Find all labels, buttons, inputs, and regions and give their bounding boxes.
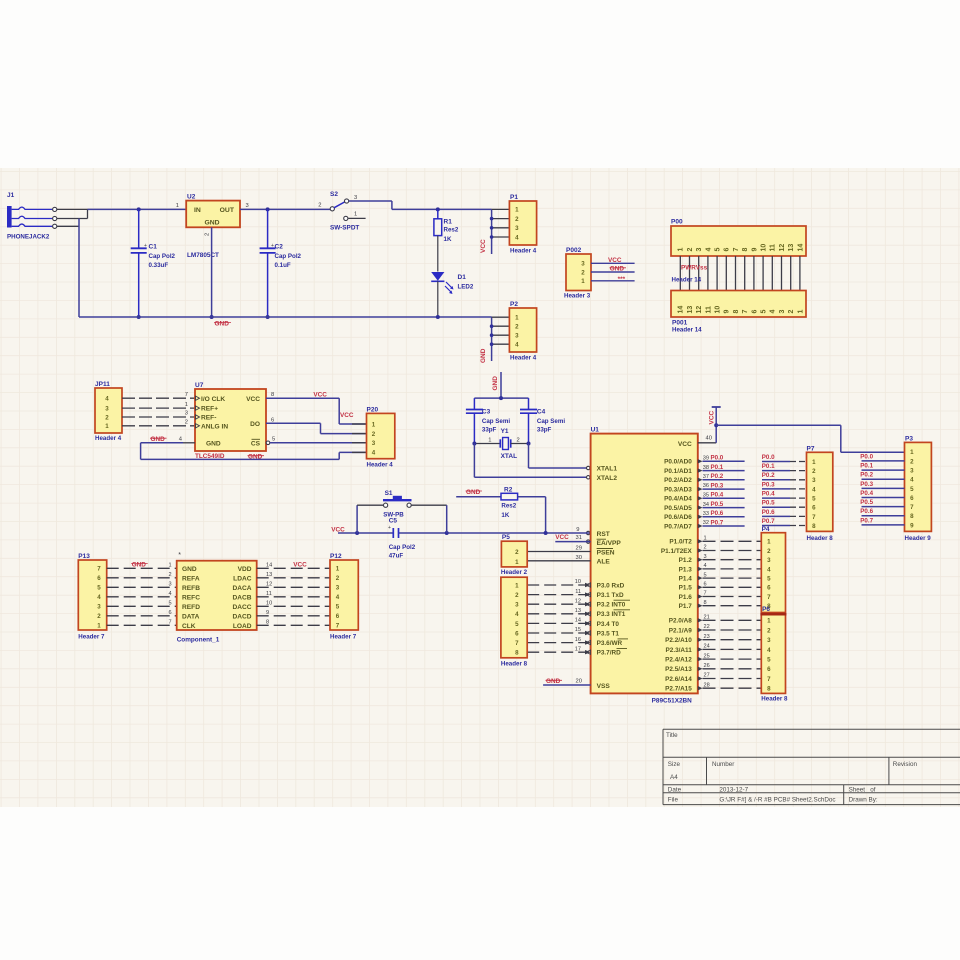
svg-text:P1.4: P1.4	[679, 576, 693, 583]
svg-text:27: 27	[704, 673, 710, 679]
svg-text:P0.2: P0.2	[860, 472, 873, 479]
svg-text:P0.2: P0.2	[711, 473, 724, 480]
svg-text:SW-PB: SW-PB	[383, 512, 404, 519]
junction C1 bottom	[137, 315, 141, 319]
svg-text:4: 4	[105, 396, 109, 403]
svg-text:C5: C5	[389, 518, 398, 525]
svg-text:P0.2: P0.2	[762, 472, 775, 479]
svg-text:6: 6	[97, 575, 101, 582]
svg-text:G:\JR F#] & /-R #B PCB# Sheet2: G:\JR F#] & /-R #B PCB# Sheet2.SchDoc	[719, 797, 835, 804]
svg-text:2: 2	[788, 310, 795, 314]
svg-text:P89C51X2BN: P89C51X2BN	[652, 698, 693, 705]
wire VCC to header P3	[716, 424, 841, 426]
svg-text:3: 3	[767, 557, 771, 564]
svg-text:LOAD: LOAD	[233, 623, 252, 630]
svg-text:10: 10	[575, 579, 581, 585]
svg-text:Cap Semi: Cap Semi	[537, 418, 565, 425]
svg-text:Header 8: Header 8	[761, 696, 788, 703]
svg-text:7: 7	[910, 504, 914, 511]
wires JP11 to U7	[122, 397, 195, 399]
svg-text:12: 12	[696, 306, 703, 314]
wire U7 CS to P20 pin3	[266, 441, 270, 445]
svg-text:P6: P6	[762, 606, 770, 613]
svg-text:5: 5	[761, 310, 768, 314]
svg-text:P0.7: P0.7	[711, 519, 724, 526]
svg-text:6: 6	[751, 310, 758, 314]
header P8	[501, 577, 528, 667]
svg-text:Date: Date	[668, 786, 682, 793]
svg-text:Header 4: Header 4	[95, 435, 122, 442]
svg-text:6: 6	[515, 630, 519, 637]
svg-text:7: 7	[97, 566, 101, 573]
adc U7 TLC549ID	[179, 382, 275, 460]
svg-text:REFD: REFD	[182, 604, 200, 611]
svg-text:PHONEJACK2: PHONEJACK2	[7, 234, 50, 241]
svg-text:33pF: 33pF	[537, 426, 552, 433]
header P002	[564, 247, 635, 300]
ground rail	[79, 316, 492, 318]
svg-text:GND: GND	[182, 566, 197, 573]
svg-text:P2.1/A9: P2.1/A9	[669, 627, 693, 634]
svg-text:2: 2	[910, 458, 914, 465]
svg-text:OUT: OUT	[220, 207, 235, 214]
svg-text:2: 2	[515, 549, 519, 556]
mcu U1 P89C51X2BN	[591, 427, 698, 705]
svg-text:5: 5	[767, 576, 771, 583]
svg-text:1: 1	[767, 539, 771, 546]
svg-text:5: 5	[169, 601, 172, 607]
svg-text:REF-: REF-	[201, 415, 216, 422]
svg-text:7: 7	[185, 392, 188, 398]
svg-text:VCC: VCC	[246, 396, 260, 403]
svg-text:3: 3	[169, 582, 172, 588]
svg-text:GND: GND	[546, 678, 561, 685]
svg-text:P0.1/AD1: P0.1/AD1	[664, 468, 692, 475]
svg-text:P1.5: P1.5	[679, 585, 693, 592]
svg-text:P0.3: P0.3	[860, 481, 873, 488]
svg-text:2: 2	[767, 548, 771, 555]
svg-text:REF+: REF+	[201, 406, 218, 413]
wire switch pin3	[349, 200, 392, 202]
svg-text:VCC: VCC	[555, 534, 569, 541]
svg-text:XTAL2: XTAL2	[597, 475, 618, 482]
svg-text:Revision: Revision	[893, 761, 918, 768]
wires P7 stubs with net labels	[762, 461, 790, 463]
svg-text:P0.0: P0.0	[711, 455, 724, 462]
svg-text:13: 13	[788, 244, 795, 252]
svg-text:11: 11	[770, 244, 777, 252]
svg-text:32: 32	[703, 520, 709, 526]
svg-text:Sheet of: Sheet of	[849, 786, 876, 793]
junction U2 gnd at rail	[210, 315, 214, 319]
svg-text:5: 5	[272, 437, 275, 443]
header P001	[671, 291, 806, 334]
svg-text:8: 8	[910, 513, 914, 520]
svg-text:REFB: REFB	[182, 585, 200, 592]
wire VCC pin 40	[698, 442, 716, 444]
svg-text:6: 6	[724, 248, 731, 252]
wires Component_1 to P12	[257, 567, 330, 569]
wire jack sleeve	[57, 225, 79, 227]
svg-text:VCC: VCC	[709, 410, 716, 424]
svg-text:Header 14: Header 14	[672, 327, 702, 334]
svg-text:3: 3	[696, 248, 703, 252]
svg-text:Header 3: Header 3	[564, 293, 591, 300]
svg-text:1: 1	[910, 449, 914, 456]
svg-text:S1: S1	[385, 490, 393, 497]
svg-text:GND: GND	[204, 220, 219, 227]
wire VSS gnd stub	[543, 684, 591, 686]
svg-text:11: 11	[575, 589, 581, 595]
svg-text:Cap Pol2: Cap Pol2	[389, 544, 416, 551]
svg-text:P12: P12	[330, 553, 342, 560]
header P2	[490, 301, 537, 362]
junction gnd xtal	[499, 396, 503, 400]
svg-text:31: 31	[576, 535, 582, 541]
svg-text:3: 3	[97, 604, 101, 611]
wires P8 to U1 P3.x	[527, 584, 585, 586]
svg-text:7: 7	[515, 640, 519, 647]
header P1	[490, 194, 537, 255]
svg-text:P0.3/AD3: P0.3/AD3	[664, 486, 692, 493]
svg-text:5: 5	[704, 572, 707, 578]
svg-text:1: 1	[105, 423, 109, 430]
svg-text:3: 3	[354, 195, 357, 201]
svg-text:P0.4: P0.4	[711, 492, 724, 499]
svg-text:12: 12	[779, 244, 786, 252]
wire U2 gnd pin	[211, 227, 213, 317]
svg-text:6: 6	[336, 613, 340, 620]
svg-text:P2.7/A15: P2.7/A15	[665, 686, 692, 693]
svg-text:5: 5	[336, 604, 340, 611]
svg-text:GND: GND	[466, 489, 481, 496]
svg-text:P13: P13	[78, 553, 90, 560]
svg-text:8: 8	[733, 310, 740, 314]
svg-text:7: 7	[767, 676, 771, 683]
svg-text:1: 1	[97, 623, 101, 630]
svg-text:1: 1	[336, 566, 340, 573]
svg-text:P0.3: P0.3	[711, 482, 724, 489]
svg-text:12: 12	[575, 598, 581, 604]
svg-text:14: 14	[678, 306, 685, 314]
svg-text:Header 4: Header 4	[367, 462, 394, 469]
svg-text:ALE: ALE	[597, 559, 611, 566]
svg-text:2: 2	[515, 216, 519, 223]
svg-text:2: 2	[336, 575, 340, 582]
svg-text:40: 40	[706, 436, 712, 442]
svg-text:Cap Pol2: Cap Pol2	[149, 253, 176, 260]
svg-text:P4: P4	[762, 526, 770, 533]
svg-text:VCC: VCC	[678, 441, 692, 448]
svg-text:Component_1: Component_1	[177, 637, 220, 644]
svg-text:Header 7: Header 7	[330, 634, 357, 641]
svg-text:8: 8	[271, 392, 274, 398]
svg-text:1: 1	[812, 459, 816, 466]
svg-text:26: 26	[704, 663, 710, 669]
svg-text:1: 1	[354, 212, 357, 218]
wires P13 to Component_1	[107, 567, 177, 569]
svg-text:P2.2/A10: P2.2/A10	[665, 637, 692, 644]
svg-text:28: 28	[704, 682, 710, 688]
dac Component_1	[169, 552, 273, 644]
junction C2 bottom	[266, 315, 270, 319]
svg-text:2: 2	[767, 627, 771, 634]
svg-text:DACD: DACD	[232, 613, 251, 620]
svg-text:VDD: VDD	[238, 566, 252, 573]
svg-text:3: 3	[372, 440, 376, 447]
svg-text:Res2: Res2	[501, 502, 516, 509]
svg-text:1: 1	[678, 248, 685, 252]
header P6	[760, 606, 788, 702]
wire U7 gnd loop	[183, 442, 195, 444]
svg-text:P5: P5	[502, 534, 510, 541]
svg-text:16: 16	[575, 637, 581, 643]
regulator U2 LM7805CT	[176, 194, 249, 260]
svg-text:Header 4: Header 4	[510, 355, 537, 362]
wire jack tip to rail	[57, 208, 88, 210]
svg-text:47uF: 47uF	[389, 553, 404, 560]
svg-text:P0.1: P0.1	[711, 464, 724, 471]
svg-text:P0.1: P0.1	[860, 463, 873, 470]
svg-text:1: 1	[185, 402, 188, 408]
svg-text:2: 2	[704, 545, 707, 551]
svg-text:Number: Number	[712, 761, 734, 768]
wire C3 branch to XTAL2	[473, 444, 475, 478]
header P00	[671, 219, 806, 257]
svg-text:4: 4	[812, 486, 816, 493]
svg-text:15: 15	[575, 627, 581, 633]
svg-text:1: 1	[515, 582, 519, 589]
svg-text:C2: C2	[275, 244, 284, 251]
capacitor C4	[520, 398, 565, 443]
svg-text:Header 8: Header 8	[807, 535, 834, 542]
switch S1 SW-PB	[357, 490, 447, 533]
capacitor C1	[131, 209, 176, 317]
title block	[663, 729, 960, 804]
svg-text:Header 2: Header 2	[501, 569, 528, 576]
svg-text:P001: P001	[672, 320, 688, 327]
svg-text:30: 30	[576, 555, 582, 561]
svg-text:VSS: VSS	[597, 683, 611, 690]
svg-text:P3.6/WR: P3.6/WR	[597, 640, 623, 647]
svg-text:P0.7: P0.7	[860, 517, 873, 524]
svg-text:1: 1	[515, 315, 519, 322]
svg-text:2: 2	[97, 613, 101, 620]
svg-text:P0.1: P0.1	[762, 463, 775, 470]
svg-text:1: 1	[176, 203, 179, 209]
junction R2 rail	[544, 531, 548, 535]
capacitor C3	[466, 398, 510, 443]
svg-text:P0.6: P0.6	[711, 510, 724, 517]
svg-text:U1: U1	[591, 427, 600, 434]
svg-text:1: 1	[767, 618, 771, 625]
svg-text:7: 7	[704, 591, 707, 597]
svg-text:CLK: CLK	[182, 623, 196, 630]
svg-text:6: 6	[704, 582, 707, 588]
svg-text:10: 10	[761, 244, 768, 252]
svg-text:2: 2	[515, 324, 519, 331]
svg-text:10: 10	[715, 306, 722, 314]
junction R1 top	[436, 207, 440, 211]
svg-text:GND: GND	[151, 436, 166, 443]
svg-text:4: 4	[704, 563, 707, 569]
svg-text:U2: U2	[187, 194, 196, 201]
svg-text:3: 3	[105, 405, 109, 412]
svg-text:GND: GND	[248, 454, 263, 461]
svg-text:P2.5/A13: P2.5/A13	[665, 666, 692, 673]
svg-text:Title: Title	[666, 732, 678, 739]
header P5	[501, 534, 528, 576]
svg-text:8: 8	[515, 650, 519, 657]
svg-text:P1.6: P1.6	[679, 594, 693, 601]
wires U1 P2.x to P6	[698, 618, 703, 622]
svg-text:SW-SPDT: SW-SPDT	[330, 225, 359, 232]
svg-text:38: 38	[703, 465, 709, 471]
svg-text:36: 36	[703, 483, 709, 489]
svg-text:3: 3	[812, 477, 816, 484]
svg-text:P0.3: P0.3	[762, 481, 775, 488]
svg-text:4: 4	[910, 477, 914, 484]
svg-text:11: 11	[705, 306, 712, 314]
svg-text:P0.0/AD0: P0.0/AD0	[664, 459, 692, 466]
svg-text:4: 4	[372, 450, 376, 457]
wires P00 to P001	[679, 256, 681, 291]
svg-text:Header 9: Header 9	[905, 535, 932, 542]
svg-text:GND: GND	[215, 321, 230, 328]
svg-text:GND: GND	[610, 266, 625, 273]
svg-text:P3: P3	[905, 435, 913, 442]
junction C2 top	[266, 207, 270, 211]
svg-text:17: 17	[575, 646, 581, 652]
svg-text:J1: J1	[7, 192, 15, 199]
crystal Y1 XTAL	[474, 428, 528, 460]
svg-text:C1: C1	[149, 244, 158, 251]
svg-text:5: 5	[715, 248, 722, 252]
wires U1 P1.x to P4	[698, 539, 703, 543]
svg-text:3: 3	[246, 203, 249, 209]
resistor R2	[456, 486, 545, 519]
svg-text:4: 4	[97, 594, 101, 601]
LED D1	[431, 272, 474, 317]
svg-text:1: 1	[581, 278, 585, 285]
svg-text:14: 14	[575, 618, 581, 624]
svg-text:7: 7	[336, 623, 340, 630]
svg-text:P0.5: P0.5	[762, 500, 775, 507]
svg-text:3: 3	[704, 554, 707, 560]
header P7	[807, 445, 834, 542]
svg-text:4: 4	[169, 591, 172, 597]
wires P20 pin stubs	[352, 423, 367, 425]
svg-text:2: 2	[515, 592, 519, 599]
svg-text:C4: C4	[537, 409, 546, 416]
wire jack ring step	[57, 218, 88, 220]
svg-text:37: 37	[703, 474, 709, 480]
svg-text:6: 6	[910, 495, 914, 502]
svg-text:2: 2	[581, 269, 585, 276]
svg-text:P3.3 INT1: P3.3 INT1	[597, 611, 626, 618]
svg-text:File: File	[668, 797, 679, 804]
svg-text:35: 35	[703, 493, 709, 499]
svg-text:***: ***	[618, 276, 626, 283]
svg-text:XTAL1: XTAL1	[597, 466, 618, 473]
wire PSEN to P5	[527, 551, 590, 553]
svg-text:33pF: 33pF	[482, 426, 497, 433]
wire EA/VPP VCC stub	[555, 541, 590, 543]
svg-text:S2: S2	[330, 191, 338, 198]
junction C1 top	[137, 207, 141, 211]
svg-text:VCC: VCC	[293, 561, 307, 568]
svg-text:4: 4	[767, 566, 771, 573]
svg-text:2: 2	[812, 468, 816, 475]
svg-text:P2.4/A12: P2.4/A12	[665, 657, 692, 664]
svg-text:XTAL: XTAL	[501, 453, 518, 460]
svg-text:LDAC: LDAC	[233, 575, 252, 582]
svg-text:3: 3	[515, 602, 519, 609]
svg-text:9: 9	[910, 522, 914, 529]
svg-text:4: 4	[515, 611, 519, 618]
svg-text:LM7805CT: LM7805CT	[187, 252, 219, 259]
svg-text:5: 5	[515, 621, 519, 628]
wire sleeve to ground rail	[78, 219, 80, 318]
svg-text:39: 39	[703, 456, 709, 462]
svg-text:*: *	[178, 552, 181, 559]
svg-text:23: 23	[704, 634, 710, 640]
svg-text:2: 2	[185, 420, 188, 426]
junction S1 left	[355, 531, 359, 535]
svg-text:1: 1	[515, 207, 519, 214]
svg-text:Header 8: Header 8	[501, 660, 528, 667]
svg-text:DACB: DACB	[232, 594, 251, 601]
svg-text:CS: CS	[251, 441, 261, 448]
wire ALE to P5	[527, 560, 590, 562]
svg-text:4: 4	[515, 342, 519, 349]
svg-text:1: 1	[704, 536, 707, 542]
svg-text:R1: R1	[444, 219, 453, 226]
svg-text:22: 22	[704, 624, 710, 630]
svg-text:+: +	[144, 243, 147, 249]
svg-text:2: 2	[318, 203, 321, 209]
svg-text:Drawn By:: Drawn By:	[849, 797, 878, 804]
svg-text:GND: GND	[480, 348, 487, 363]
svg-text:4: 4	[705, 248, 712, 252]
svg-text:7: 7	[812, 514, 816, 521]
svg-text:4: 4	[336, 594, 340, 601]
svg-text:P3.7/RD: P3.7/RD	[597, 650, 622, 657]
svg-text:P2.3/A11: P2.3/A11	[666, 647, 693, 654]
header P20	[367, 407, 395, 469]
svg-text:P0.4: P0.4	[860, 490, 873, 497]
header P13	[78, 553, 106, 641]
svg-text:2: 2	[517, 437, 520, 443]
svg-text:21: 21	[704, 615, 710, 621]
svg-text:9: 9	[724, 310, 731, 314]
svg-text:29: 29	[576, 546, 582, 552]
svg-text:2: 2	[372, 431, 376, 438]
capacitor C2	[260, 209, 302, 317]
switch S2 SW-SPDT	[318, 191, 365, 232]
svg-text:A4: A4	[670, 774, 678, 781]
header JP11	[95, 381, 122, 442]
svg-text:Cap Pol2: Cap Pol2	[275, 253, 302, 260]
svg-text:34: 34	[703, 502, 709, 508]
svg-text:8: 8	[767, 686, 771, 693]
svg-text:6: 6	[169, 610, 172, 616]
svg-text:P1.1/T2EX: P1.1/T2EX	[661, 548, 693, 555]
svg-text:3: 3	[515, 333, 519, 340]
svg-text:6: 6	[767, 585, 771, 592]
svg-text:C3: C3	[482, 409, 491, 416]
wire top rail jack to U2	[88, 208, 187, 210]
